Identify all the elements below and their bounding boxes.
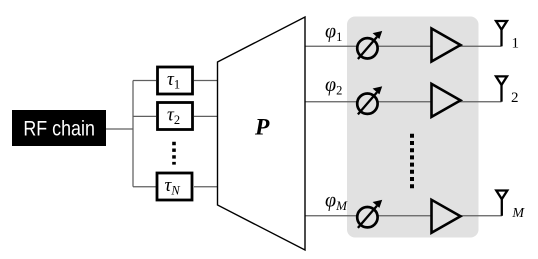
svg-text:RF chain: RF chain — [23, 117, 95, 141]
svg-text:φ2: φ2 — [325, 74, 342, 98]
svg-text:φM: φM — [325, 190, 348, 214]
svg-text:1: 1 — [512, 35, 520, 51]
svg-text:P: P — [254, 115, 270, 141]
svg-text:M: M — [511, 206, 525, 221]
svg-text:2: 2 — [511, 90, 519, 106]
svg-text:φ1: φ1 — [325, 21, 342, 45]
